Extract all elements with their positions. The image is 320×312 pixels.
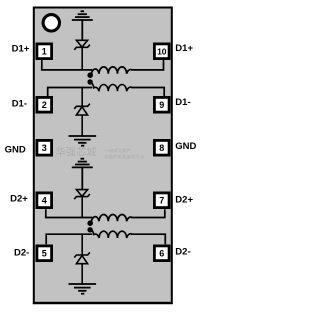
svg-text:2: 2 [42,100,47,110]
svg-text:6: 6 [159,248,164,258]
body bottom border extra thickness [33,302,173,304]
svg-text:D2+: D2+ [175,194,193,205]
wire: choke A to pin 7 [131,209,165,217]
svg-text:D1-: D1- [12,98,27,109]
svg-text:华强芯城: 华强芯城 [56,146,97,159]
ground (bottom of D2 section) [69,284,97,294]
svg-text:7: 7 [159,195,164,205]
watermark [56,146,145,161]
zener diode D2- to GND [74,234,90,284]
svg-text:D1-: D1- [175,97,190,108]
wire: choke B to pin 9 [131,88,164,97]
wire: pin 2 up and right to choke [48,88,93,97]
svg-text:4: 4 [42,195,47,205]
svg-text:D1+: D1+ [175,43,193,54]
wire: pin 4 down and right to choke [46,209,93,217]
wire: choke B to pin 6 [131,234,165,244]
junction dot L1 phase A [87,72,93,78]
svg-text:D2-: D2- [14,248,29,259]
zener diode D2+ to GND [74,190,90,218]
svg-text:D2+: D2+ [10,194,28,205]
zener diode D1+ to GND [74,40,90,70]
zener diode D1- to GND [74,88,90,137]
wire: pin 1 down and right to choke [42,60,93,70]
junction dot L2 phase A [87,220,93,226]
ground (top, D1 section, inverted) [72,11,93,40]
inductor L2 winding B [90,230,131,238]
pin 1 index circle [43,15,59,31]
pin 6 [154,246,169,261]
svg-text:一站式元器件: 一站式元器件 [105,147,131,154]
inductor L2 winding A [91,214,131,222]
junction dot L1 phase B [87,79,92,84]
svg-text:D2-: D2- [175,247,190,258]
svg-text:元器件采购服务平台: 元器件采购服务平台 [104,154,145,161]
svg-text:9: 9 [159,100,164,110]
pin 10 [154,44,169,59]
svg-text:GND: GND [175,141,196,152]
wire: choke A to pin 10 [131,60,164,70]
svg-text:1: 1 [42,46,47,56]
svg-text:3: 3 [42,143,47,153]
inductor L1 winding A [91,67,131,75]
ground (bottom of D1 section) [69,136,97,146]
wire: pin 5 up and right to choke [46,234,92,244]
pin 5 [37,246,52,261]
pin 9 [154,97,169,112]
pin 8 [154,140,169,155]
pin 3 [37,140,52,155]
svg-text:10: 10 [157,46,167,56]
svg-text:8: 8 [159,143,164,153]
svg-text:GND: GND [5,144,26,155]
pin 1 [37,44,52,59]
inductor L1 winding B [90,82,131,91]
ground (top of D2 section, inverted) [72,159,93,190]
pin 4 [37,193,52,208]
svg-text:5: 5 [42,248,47,258]
svg-text:D1+: D1+ [12,43,30,54]
IC body [34,8,172,303]
pin 2 [37,97,52,112]
junction dot L2 phase B [87,227,92,232]
pin 7 [154,193,169,208]
